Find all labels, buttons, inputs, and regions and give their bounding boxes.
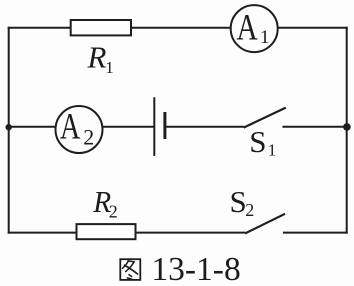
wire left vertical <box>8 27 10 234</box>
switch S2 blade <box>245 214 285 234</box>
label S1 <box>249 124 276 159</box>
battery cell: short plate <box>163 112 166 139</box>
svg-text:2: 2 <box>83 124 94 149</box>
svg-text:R: R <box>87 40 107 75</box>
battery cell: long plate <box>153 97 155 156</box>
svg-text:1: 1 <box>260 27 270 48</box>
ammeter A2 <box>56 106 103 153</box>
wire resistor R2 to switch S2 <box>136 232 246 234</box>
svg-text:1: 1 <box>268 141 277 160</box>
ammeter A1 <box>231 5 278 52</box>
resistor R1 <box>71 20 131 35</box>
wire ammeter A2 to battery <box>103 126 155 128</box>
wire switch S2 to bottom right corner <box>283 232 348 234</box>
wire top middle segment <box>131 27 231 29</box>
caption: hanzi "tu" (figure) drawn as strokes <box>120 259 140 280</box>
svg-text:S: S <box>230 184 247 219</box>
label R1 <box>87 40 114 77</box>
label R2 <box>92 184 117 221</box>
wire right vertical <box>346 27 348 234</box>
svg-text:A: A <box>237 7 258 48</box>
wire middle left segment <box>8 126 56 128</box>
svg-text:2: 2 <box>245 200 254 220</box>
wire switch S1 to right node <box>282 126 346 128</box>
svg-text:S: S <box>249 124 266 159</box>
wire top left segment <box>8 27 71 29</box>
svg-text:13-1-8: 13-1-8 <box>151 251 240 286</box>
node left junction <box>6 124 12 130</box>
svg-text:2: 2 <box>109 201 118 221</box>
resistor R2 <box>77 224 136 239</box>
wire bottom left segment <box>8 232 77 234</box>
switch S1 blade <box>244 108 286 128</box>
wire top right segment <box>278 27 348 29</box>
svg-text:A: A <box>60 106 81 147</box>
wire battery to switch S1 <box>165 126 244 128</box>
node right junction <box>343 123 351 131</box>
label S2 <box>230 184 255 220</box>
svg-text:1: 1 <box>105 58 114 77</box>
